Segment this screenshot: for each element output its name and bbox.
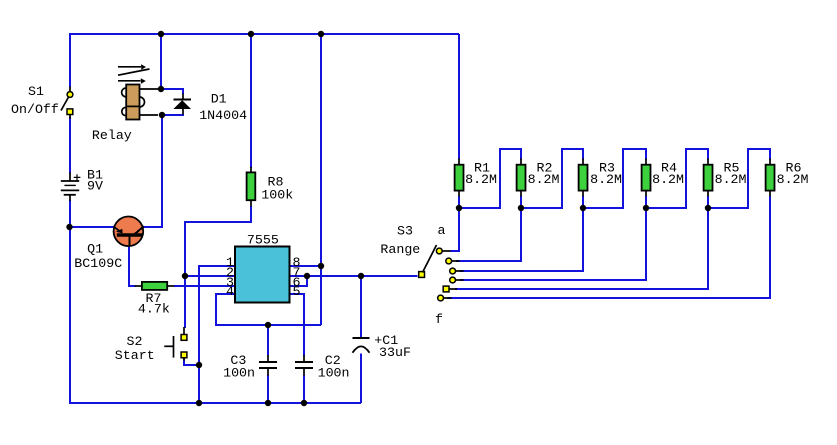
S3 contact c (450, 268, 464, 274)
wire S3 contact e to R5 bottom node (455, 208, 708, 289)
wire chain link R4-R5 (646, 149, 708, 208)
S3 contact d (450, 277, 464, 283)
svg-text:8.2M: 8.2M (465, 172, 497, 187)
S3 contact e (443, 286, 457, 292)
wire C1 bottom to ground rail end (360, 354, 362, 404)
wire C2 bottom to ground rail (303, 375, 305, 403)
junction R4 bottom node (643, 205, 649, 211)
svg-text:a: a (438, 223, 446, 238)
wire top rail down to R1 top (458, 34, 460, 160)
wire left rail upper (top rail to S1) (69, 33, 71, 87)
svg-text:7555: 7555 (247, 233, 279, 248)
resistor R7 4.7k (135, 282, 175, 290)
switch S2 start push-button (164, 327, 187, 361)
svg-text:On/Off: On/Off (11, 102, 59, 117)
svg-text:33uF: 33uF (379, 345, 411, 360)
wire chain link R5-R6 (708, 149, 770, 208)
relay coil (122, 85, 158, 120)
wire chain link R1-R2 (459, 149, 521, 208)
svg-text:100k: 100k (261, 187, 293, 202)
wire C3 bottom to ground rail (267, 375, 269, 403)
svg-text:5: 5 (293, 284, 301, 299)
wire S3 contact d to R4 bottom node (460, 208, 646, 280)
switch S1 on/off (61, 87, 73, 119)
transistor Q1 BC109C (113, 217, 143, 247)
junction R3 bottom node (580, 205, 586, 211)
wire Q1 base lead down to R7 (129, 246, 136, 287)
relay RLA contacts (118, 64, 150, 83)
wire R5 bottom lead (707, 196, 709, 208)
switch S3 range selector (419, 245, 437, 277)
wire pin 2 trigger line (185, 275, 234, 277)
svg-text:S2: S2 (127, 334, 143, 349)
junction R1 bottom node (456, 205, 462, 211)
wire chain link R3-R4 (583, 149, 646, 208)
wire R2 bottom lead (520, 196, 522, 208)
wire pin 8 (291, 265, 322, 267)
wire C3 top lead (267, 325, 269, 356)
battery B1 9V (61, 173, 81, 201)
wire pin 6 link to pin 7 (291, 276, 308, 286)
svg-text:8.2M: 8.2M (777, 172, 809, 187)
wire pin 1 to ground rail (199, 266, 234, 403)
wire R7 to pin 3 output line (174, 285, 234, 287)
S3 contact b (446, 258, 460, 264)
resistor R8 100k (247, 167, 256, 207)
svg-text:Q1: Q1 (87, 242, 103, 257)
junction C3 / reset loop (265, 322, 271, 328)
wire R1 bottom lead (458, 196, 460, 208)
svg-text:S3: S3 (397, 224, 413, 239)
resistor R1 8.2M (455, 159, 464, 197)
wire bottom ground rail (69, 402, 361, 404)
wire battery to ground, left rail lower (69, 200, 71, 403)
resistor R6 8.2M (766, 159, 775, 197)
wire S3 contact c to R3 bottom node (460, 208, 583, 271)
junction S2 / pin1 leg (196, 362, 202, 368)
wire S3 contact f to R6 bottom (447, 196, 770, 298)
junction top rail / relay (158, 31, 164, 37)
wire Q1 emitter to left rail (69, 226, 114, 228)
junction relay coil top / D1 (158, 86, 164, 92)
wire top supply rail (69, 33, 459, 35)
junction relay coil bottom / D1 (159, 112, 165, 118)
wire R3 bottom lead (582, 196, 584, 208)
wire R4 bottom lead (645, 196, 647, 208)
svg-text:S1: S1 (28, 84, 44, 99)
junction pin1 leg / ground rail (196, 400, 202, 406)
IC U1 7555 timer (235, 247, 290, 303)
wire R8 bottom to pin2 node and down to S2 (185, 206, 251, 328)
capacitor C2 100n (295, 355, 313, 376)
svg-text:8.2M: 8.2M (590, 172, 622, 187)
wire S3 contact a up to R1 bottom node (450, 208, 459, 251)
junction pin8 / supply rail (318, 263, 324, 269)
resistor R3 8.2M (579, 159, 588, 197)
diode D1 1N4004 (173, 94, 191, 115)
wire top rail down to relay top node (160, 33, 162, 90)
wire D1 anode to relay bottom node (162, 114, 184, 115)
svg-text:Range: Range (380, 242, 420, 257)
wire S3 contact b to R2 bottom node (456, 208, 521, 261)
wire chain link R2-R3 (521, 149, 583, 208)
S3 contact f (438, 295, 452, 301)
svg-text:8.2M: 8.2M (528, 172, 560, 187)
capacitor C3 100n (259, 355, 277, 376)
wire pin 7 discharge line to S3 pole (291, 275, 418, 277)
junction R2 bottom node (518, 205, 524, 211)
junction pin2 node (182, 273, 188, 279)
svg-text:100n: 100n (223, 366, 255, 381)
wire pin 4 reset loop to supply (216, 294, 321, 325)
wire S1 to battery B1 (69, 117, 71, 174)
svg-text:8.2M: 8.2M (652, 172, 684, 187)
junction R5 bottom node (705, 205, 711, 211)
svg-text:D1: D1 (211, 92, 227, 107)
resistor R5 8.2M (704, 159, 713, 197)
junction C1 / pin7 line (358, 273, 364, 279)
svg-text:Relay: Relay (92, 128, 132, 143)
junction top rail / pin8 rail (318, 31, 324, 37)
junction C2 / ground rail (301, 400, 307, 406)
svg-text:4.7k: 4.7k (138, 301, 170, 316)
svg-text:1N4004: 1N4004 (199, 108, 247, 123)
junction pin6/pin7 node (304, 273, 310, 279)
resistor R2 8.2M (517, 159, 526, 197)
svg-text:100n: 100n (318, 366, 350, 381)
wire relay top node to D1 cathode (161, 89, 184, 94)
S3 contact a (436, 248, 450, 254)
wire C1 top lead from pin7 node (360, 276, 362, 337)
wire Q1 collector up to relay bottom node (144, 116, 163, 227)
wire supply rail down to pin 8 and reset loop (320, 33, 322, 325)
svg-text:f: f (435, 312, 443, 327)
wire pin 5 through C2 to ground (291, 294, 305, 356)
svg-text:8.2M: 8.2M (715, 172, 747, 187)
junction C3 / ground rail (265, 400, 271, 406)
svg-text:4: 4 (226, 284, 234, 299)
junction top rail / R8 (248, 31, 254, 37)
wire S2 bottom to pin1 ground leg (184, 359, 199, 365)
resistor R4 8.2M (642, 159, 651, 197)
svg-text:BC109C: BC109C (74, 256, 122, 271)
svg-text:9V: 9V (87, 179, 103, 194)
svg-text:Start: Start (115, 348, 155, 363)
junction left rail / Q1 emitter (66, 224, 72, 230)
capacitor C1 33uF electrolytic (353, 338, 370, 353)
wire top rail down to R8 top (250, 33, 252, 168)
